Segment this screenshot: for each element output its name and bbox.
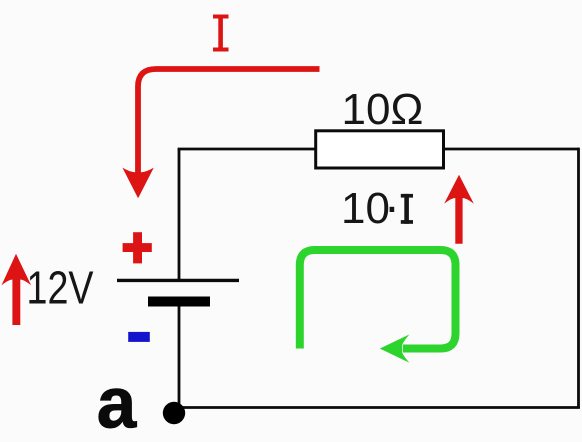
- serif I of 10·I: [401, 194, 413, 224]
- arrow: red L-shaped current direction path from top going left then down: [138, 69, 320, 174]
- svg-text:10Ω: 10Ω: [342, 85, 424, 134]
- wire: battery - plate down to node a: [178, 302, 181, 411]
- battery - polarity mark (blue minus): [128, 332, 150, 342]
- label I (current) at top, red serif I: [213, 15, 229, 52]
- arrowhead of green loop pointing left: [380, 334, 410, 362]
- arrow: red up arrow right of 10·I (voltage polarity across resistor): [444, 175, 474, 244]
- wire: top horizontal right segment from resistor to top-right corner: [444, 148, 579, 151]
- wire: bottom horizontal from node a to bottom-right corner: [174, 406, 580, 409]
- battery V1 positive plate (long thin): [117, 279, 239, 282]
- wire: right vertical: [577, 148, 580, 408]
- node a junction dot: [163, 402, 185, 424]
- arrow: red up arrow next to 12V (voltage rise direction): [2, 254, 32, 325]
- svg-text:12V: 12V: [27, 262, 94, 314]
- green mesh current loop (open rounded rectangle, counter-clockwise): [300, 250, 456, 349]
- arrowhead of red current path pointing down: [122, 168, 153, 199]
- battery V1 negative plate (short thick): [148, 297, 210, 307]
- resistor R (10 ohm) body: [316, 131, 444, 168]
- svg-text:10: 10: [341, 184, 390, 233]
- wire: top horizontal left segment from corner to resistor: [178, 148, 316, 151]
- wire: top-left vertical from top-left corner down to battery + plate: [178, 149, 181, 280]
- svg-text:a: a: [97, 365, 137, 442]
- battery + polarity mark (red plus): [123, 232, 152, 263]
- middle dot of 10·I: [390, 207, 395, 212]
